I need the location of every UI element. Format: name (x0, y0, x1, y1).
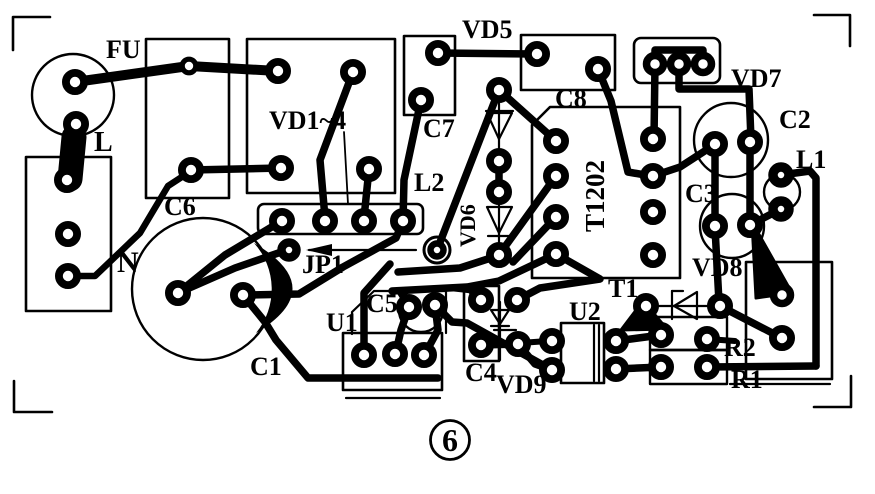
wire C4 bottom bar (481, 344, 518, 345)
wire C6 pair (191, 168, 281, 170)
pad JP1 pin1 (273, 212, 291, 230)
wire U2 to R1 (616, 367, 661, 369)
JP1 arrow (306, 244, 416, 256)
wire L1 to right bus (781, 171, 816, 366)
pad VD6 bottom (490, 246, 508, 264)
pad L2 ring (424, 237, 450, 263)
corner mark top-left (13, 17, 50, 50)
diodes VD1~4 outline (247, 39, 395, 193)
pad C6 left (182, 161, 200, 179)
capacitor C7 outline (404, 36, 455, 115)
pad C5 right (426, 296, 444, 314)
pad C4 top (472, 291, 490, 309)
capacitor C4 outline (464, 286, 499, 361)
pad R2 left (652, 326, 670, 344)
figure number 6 circle (431, 421, 470, 460)
wire U2 pad stub (520, 341, 548, 343)
pad VD8 left (637, 297, 655, 315)
wire T1 junction (519, 254, 600, 299)
svg-text:C2: C2 (779, 105, 811, 134)
pad module lower (773, 329, 791, 347)
wire VD6 to T1202 pin (499, 90, 556, 141)
wire C7 to JP1 pin4 (403, 100, 421, 221)
pad terminal 1 (58, 171, 76, 189)
pad R1 right (698, 358, 716, 376)
resistor R1 outline (650, 350, 727, 384)
svg-text:6: 6 (442, 422, 458, 458)
pad L2 (431, 244, 444, 257)
diode VD9 symbol (491, 302, 516, 360)
svg-text:VD8: VD8 (692, 253, 743, 282)
diode VD6 symbol 1 (486, 92, 513, 160)
pad C4 bottom (472, 336, 490, 354)
pad C7 bottom (412, 91, 430, 109)
svg-text:R1: R1 (731, 365, 763, 394)
jumper JP1 outline (258, 204, 423, 234)
svg-text:L1: L1 (796, 145, 826, 174)
wire L1 to C3 (752, 209, 781, 224)
pad T1202 left3 (547, 208, 565, 226)
wire VD1~4 to JP1 pin2 (320, 72, 353, 218)
wire VD7 top bar (655, 50, 703, 64)
wire U1 pin1 up (364, 264, 390, 355)
pad C6 right (272, 159, 290, 177)
pad T1202 left4 (547, 245, 565, 263)
svg-text:VD7: VD7 (731, 64, 782, 93)
pad terminal 2 (59, 225, 77, 243)
wire R2 pad stub (707, 339, 735, 341)
corner mark bottom-left (14, 381, 52, 412)
wire JP1 pin4 diagonal (246, 221, 403, 295)
capacitor C5 circle (399, 288, 443, 332)
wire C5 to U2 (435, 305, 552, 370)
wire VD1~4 to JP1 pin3 (364, 169, 369, 218)
pad T1202 left1 (547, 132, 565, 150)
pad L top (67, 115, 85, 133)
pad VD7 pin2 (671, 56, 688, 73)
pad terminal 3 N (59, 267, 77, 285)
pad T1202 right1 (644, 130, 662, 148)
pad JP1 bold (282, 243, 297, 258)
IC U1 lower line (346, 397, 440, 399)
capacitor C6 outline (146, 39, 229, 198)
pad U1 pin2 (386, 345, 404, 363)
svg-text:R2: R2 (724, 333, 756, 362)
pad JP1 pin3 (355, 212, 373, 230)
pad VD9 bottom (509, 335, 527, 353)
pad C7 top (429, 44, 447, 62)
wire C1 to JP1 pin1 (178, 222, 280, 293)
pad VD6 top (490, 81, 508, 99)
wire C3 to VD8 (715, 228, 719, 302)
IC U1 outline (343, 333, 442, 390)
pad VD6 mid1 (490, 152, 508, 170)
svg-text:VD5: VD5 (462, 15, 513, 44)
svg-text:C7: C7 (423, 114, 455, 143)
relay wedge mark (752, 222, 792, 298)
pad FU right (269, 62, 287, 80)
pad U1 pin3 (415, 346, 433, 364)
svg-text:L: L (94, 127, 113, 158)
pad VD9 top (508, 291, 526, 309)
wire VD7 pin1 to T1202 (654, 64, 655, 139)
svg-text:T1: T1 (608, 274, 638, 303)
pad L1 bottom (773, 201, 789, 217)
wire fuse trace (75, 66, 278, 82)
pad T1202 left2 (547, 167, 565, 185)
wire C1 to JP1 bold pad (178, 250, 287, 293)
pad VD6 mid2 (490, 183, 508, 201)
wire C4 feed (452, 288, 480, 300)
pad U2 right1 (607, 332, 625, 350)
svg-text:C1: C1 (250, 352, 282, 381)
module lower line (730, 383, 830, 385)
svg-text:C3: C3 (685, 179, 717, 208)
wire R1 row to bus (707, 366, 816, 367)
capacitor C8 outline (521, 35, 615, 90)
diode VD8 wedge mark (621, 301, 667, 330)
pad VD7 pin1 (647, 56, 664, 73)
wire T1202 to C2 (653, 145, 714, 176)
diode VD8 symbol (652, 291, 714, 319)
transformer T1202 outline (532, 107, 680, 278)
svg-text:JP1: JP1 (302, 250, 344, 279)
pad T1202 right3 (644, 203, 662, 221)
svg-text:VD6: VD6 (455, 204, 480, 247)
svg-text:U2: U2 (569, 297, 601, 326)
diode VD6 symbol 2 (487, 193, 512, 254)
pad C3 right (741, 216, 759, 234)
connector VD7 outline (634, 38, 720, 83)
pad C8 left (528, 45, 546, 63)
pad VD1~4 top (344, 63, 362, 81)
capacitor C1 polarity crescent (254, 243, 293, 333)
pad C3 left (706, 217, 724, 235)
pad C2 left (706, 135, 724, 153)
pad U2 right2 (607, 360, 625, 378)
pad JP1 pin2 (316, 212, 334, 230)
pad C2 right (741, 133, 759, 151)
pad T1202 right2 (644, 167, 662, 185)
pad L1 top (773, 167, 789, 183)
wire C5 to U1 pin3 (426, 305, 438, 352)
pad U2 left2 (543, 361, 561, 379)
svg-text:FU: FU (106, 35, 141, 64)
pad VD8 right (711, 297, 729, 315)
corner mark bottom-right (814, 376, 851, 407)
capacitor C2 circle (694, 103, 768, 177)
wire C1 to U1 (243, 295, 438, 378)
svg-text:C6: C6 (164, 192, 196, 221)
pad JP1 pin4 (394, 212, 412, 230)
capacitor C3 circle (700, 194, 764, 258)
capacitor C5 outline box (352, 291, 446, 334)
pad C5 left (400, 298, 418, 316)
svg-text:C8: C8 (555, 84, 587, 113)
inductor L1 circle (764, 174, 800, 210)
pad U1 pin1 (355, 346, 373, 364)
wire C5 stub (399, 291, 409, 307)
svg-text:T1202: T1202 (580, 160, 610, 232)
wire U2 to R2 (616, 335, 661, 341)
wire T1202 pin stub (513, 217, 556, 262)
pad module wedge (774, 287, 791, 304)
wire VD6 to T1202 pin2 (499, 176, 556, 255)
svg-text:L2: L2 (414, 168, 444, 197)
svg-text:C4: C4 (465, 358, 497, 387)
pad VD1~4 bottom (360, 160, 378, 178)
VD1~4 leader line (344, 132, 348, 204)
pad U2 left1 (543, 332, 561, 350)
wire VD7 pin2 to C2 (679, 64, 751, 140)
svg-text:U1: U1 (326, 308, 358, 337)
IC U2 stripe (593, 325, 595, 381)
wire C5 to U1 pin2 (396, 307, 409, 352)
pad C1 left (169, 284, 187, 302)
wire VD8 to module pad (720, 306, 780, 337)
pad FU middle (182, 59, 196, 73)
wire C2 to C3 right (746, 142, 754, 225)
wire C2 to C3 left (711, 144, 719, 226)
pad T1202 right4 (644, 246, 662, 264)
inductor L body (70, 137, 74, 179)
wire C4 to U2 pad (518, 344, 552, 370)
pad R1 left (652, 358, 670, 376)
IC U2 outline (561, 323, 604, 383)
svg-text:C5: C5 (366, 289, 398, 318)
pad VD7 pin3 (695, 56, 712, 73)
svg-text:N: N (117, 246, 139, 279)
wire VD6 middle link (495, 161, 503, 192)
resistor R2 outline (650, 317, 727, 350)
wire mid bus upper (398, 256, 497, 272)
fuse FU circle (32, 54, 114, 136)
pad C8 right (589, 60, 607, 78)
wire mid bus lower (392, 254, 556, 291)
wire VD5 (438, 53, 537, 54)
pad FU left (66, 73, 84, 91)
terminal block outline (26, 157, 111, 311)
svg-text:VD9: VD9 (496, 370, 547, 399)
relay module outline (746, 262, 832, 379)
capacitor C1 circle (132, 218, 274, 360)
svg-text:VD1~4: VD1~4 (269, 106, 346, 135)
wire N terminal to C6 (67, 171, 191, 276)
corner mark top-right (814, 15, 850, 46)
pad R2 right (698, 330, 716, 348)
pad C1 right (234, 286, 252, 304)
wire C8 to T1202 (598, 69, 651, 176)
wire L2 to VD6 (437, 90, 499, 250)
